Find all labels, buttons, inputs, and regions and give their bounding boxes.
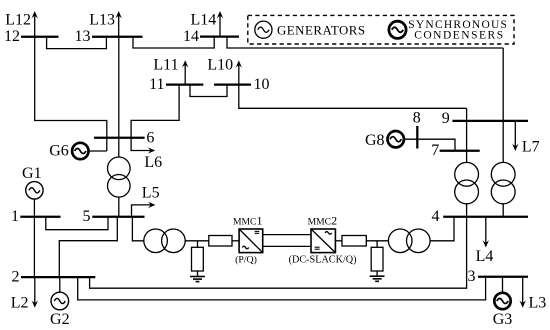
wire T5-6 to bus 5 [118, 197, 120, 217]
synchronous condenser G6 [49, 143, 88, 160]
load L10 arrow [207, 57, 242, 85]
wire transformer to bus 4 [430, 217, 454, 241]
svg-text:5: 5 [83, 208, 91, 225]
load L11 arrow [153, 57, 188, 85]
synchronous condenser G3 [493, 293, 513, 328]
svg-text:L3: L3 [529, 295, 547, 312]
legend box [248, 15, 514, 44]
bus 11 [166, 83, 203, 85]
tie 12-13 [47, 37, 107, 49]
bus 14 [200, 35, 239, 37]
svg-text:14: 14 [183, 28, 199, 45]
svg-text:12: 12 [4, 28, 20, 45]
bus 4 [443, 216, 528, 218]
bus 3 [478, 276, 528, 278]
svg-text:8: 8 [413, 110, 421, 127]
bus 6 [94, 137, 145, 139]
svg-text:L7: L7 [522, 139, 540, 156]
line 2-5 [59, 217, 117, 277]
svg-text:3: 3 [468, 268, 476, 285]
svg-text:G1: G1 [22, 165, 42, 182]
line 13-6 and transformer lead [118, 37, 120, 157]
bus 12 [21, 36, 59, 38]
bus 9 [452, 120, 528, 122]
load L2 arrow [11, 277, 38, 311]
bus 5 [92, 216, 144, 218]
transformer T5-6 [108, 157, 131, 197]
generator G2 [50, 292, 70, 328]
bus 10 [214, 83, 251, 85]
converter MMC2 [289, 214, 357, 266]
line 2-3 [78, 277, 486, 300]
shunt filter MMC2 [371, 241, 383, 276]
bus 13 [92, 36, 143, 38]
wire reactor to MMC1 [232, 240, 239, 242]
svg-text:(DC-SLACK/Q): (DC-SLACK/Q) [289, 255, 357, 266]
load L7 arrow [512, 121, 540, 156]
line 1-5 [46, 217, 108, 230]
svg-text:MMC2: MMC2 [308, 214, 337, 228]
load L5 arrow [132, 184, 160, 216]
load L14 arrow [191, 11, 224, 37]
svg-text:2: 2 [12, 269, 20, 286]
svg-text:CONDENSERS: CONDENSERS [414, 29, 504, 41]
wire MMC2 to reactor [335, 240, 342, 242]
svg-text:10: 10 [254, 76, 270, 93]
series reactor MMC1 [209, 236, 232, 247]
svg-text:11: 11 [149, 76, 164, 93]
load L4 arrow [476, 217, 494, 265]
converter MMC1 [233, 214, 263, 266]
svg-text:MMC1: MMC1 [233, 214, 262, 228]
wire bus 3 to G3 [502, 277, 504, 293]
svg-text:L5: L5 [142, 184, 160, 201]
svg-text:L13: L13 [89, 12, 115, 29]
svg-text:L11: L11 [153, 57, 178, 74]
wire G1 to bus 1 [33, 199, 35, 217]
line 10-9 [239, 85, 467, 109]
bus 8 [416, 126, 418, 149]
wire G6 to bus 6 [89, 150, 107, 152]
transformer T7-4 [455, 162, 479, 203]
svg-text:L6: L6 [144, 154, 162, 171]
wire G2 to bus 2 [59, 277, 61, 292]
svg-text:G6: G6 [49, 143, 69, 160]
line 14-9 [227, 37, 503, 48]
wires transformers to bus 4 [466, 204, 468, 217]
wire G8 to bus 8 to bus 7 [404, 139, 455, 151]
tie 13-14 [133, 37, 214, 48]
svg-text:6: 6 [146, 129, 154, 146]
svg-text:(P/Q): (P/Q) [235, 254, 257, 265]
line 14-9-transformer vertical [502, 48, 504, 162]
line 2-4 [90, 217, 467, 289]
wire bus5 to MMC1 transformer [132, 217, 143, 241]
svg-text:7: 7 [431, 142, 439, 159]
svg-text:L12: L12 [5, 12, 31, 29]
legend synchronous condenser symbol [389, 21, 406, 38]
legend generator symbol [255, 21, 272, 38]
DC link wires [263, 235, 311, 247]
line 12-6 [35, 37, 107, 151]
transformer T-MMC2 [388, 229, 430, 253]
svg-text:G8: G8 [365, 132, 385, 149]
svg-text:1: 1 [11, 208, 19, 225]
load L6 arrow [131, 138, 162, 171]
bus 7 [440, 150, 480, 152]
svg-text:4: 4 [432, 208, 440, 225]
svg-text:G2: G2 [50, 311, 70, 328]
synchronous condenser G8 [365, 131, 404, 149]
svg-text:L2: L2 [11, 295, 29, 312]
series reactor MMC2 [342, 236, 366, 247]
transformer T9-4 [491, 162, 515, 203]
wire transformer to filter junction [185, 240, 209, 242]
ground MMC2 [370, 276, 385, 281]
bus 1 [20, 216, 60, 218]
load L12 arrow [5, 11, 38, 37]
tie 11-10 [190, 85, 227, 97]
transformer T-MMC1 [144, 229, 185, 253]
ground MMC1 [190, 277, 205, 282]
svg-text:9: 9 [442, 110, 450, 127]
line 1-2 [33, 217, 35, 277]
generator G1 [22, 165, 43, 199]
svg-text:G3: G3 [493, 311, 513, 328]
load L13 arrow [89, 11, 122, 37]
wire reactor to junction to transformer [366, 240, 388, 242]
shunt filter MMC1 [192, 241, 204, 276]
svg-text:L4: L4 [476, 248, 494, 265]
load L3 arrow [519, 277, 546, 312]
line 9-7-transformer vertical [466, 108, 468, 162]
svg-text:GENERATORS: GENERATORS [277, 23, 366, 37]
svg-text:L14: L14 [191, 12, 217, 29]
svg-text:13: 13 [75, 28, 91, 45]
svg-text:L10: L10 [207, 57, 233, 74]
bus 2 [21, 276, 95, 278]
line 11-6 [131, 85, 179, 138]
